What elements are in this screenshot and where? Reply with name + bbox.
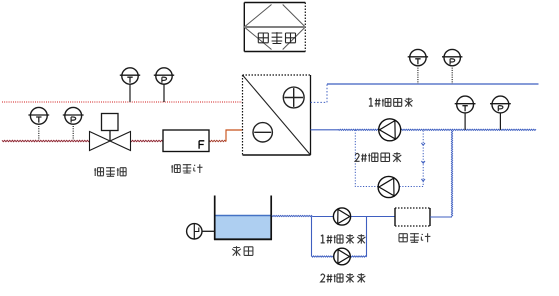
wire: make-up return zigzag riser to middle line <box>451 131 452 217</box>
temperature gauge T2 on return line <box>28 107 49 140</box>
temperature gauge T1 on supply line <box>120 68 140 102</box>
pressure gauge P4 on middle line <box>490 96 511 130</box>
control valve with actuator <box>90 114 131 151</box>
label: controller (kong zhi qi) <box>258 32 295 43</box>
make-up pump 1 (1# bu shui beng) <box>333 208 350 225</box>
make-up pump 2 (2# bu shui beng) <box>334 248 351 265</box>
label: flow meter (liu liang ji) <box>171 164 202 173</box>
wire: make-up water zigzag line from tank <box>272 215 313 216</box>
wire: return water dark red zigzag line (far left to valve) <box>2 140 90 141</box>
wire: zigzag flow meter exit segment <box>209 140 226 141</box>
cold side minus symbol <box>253 123 272 142</box>
wire: 2# make-up loop bottom zigzag segments <box>312 256 334 257</box>
heat exchanger unit U1 <box>243 75 311 155</box>
wire: 2# circulation pump dotted bypass loop <box>355 130 378 187</box>
wire: middle blue line from exchanger cold outlet <box>311 129 339 131</box>
controller box <box>244 3 305 52</box>
label: water tank (shui xiang) <box>232 246 253 256</box>
hot side plus symbol <box>283 87 304 108</box>
label: 1# make-up pump <box>321 234 366 243</box>
wire: make-up line through pump 1 <box>313 216 396 218</box>
wire: dark red zigzag valve to flow meter <box>130 140 163 141</box>
wire: orange line elbow to heat exchanger <box>226 130 243 142</box>
label: 1# circulation pump <box>369 98 413 107</box>
flow meter F box <box>163 130 209 152</box>
circulation pump 1 (1# xun huan beng) <box>379 119 401 141</box>
temperature gauge T4 on middle line <box>455 96 476 130</box>
pressure gauge P3 on top header <box>442 49 462 84</box>
label: 2# circulation pump <box>355 152 401 162</box>
flow arrows on 2# bypass riser <box>421 143 425 181</box>
wire: horizontal from energy meter to riser <box>430 216 452 218</box>
wire: supply water dotted red line (top left) <box>2 101 242 103</box>
pressure gauge P2 on return line <box>63 107 84 140</box>
temperature gauge T3 on top header <box>408 49 428 84</box>
wire: middle blue zigzag segment <box>338 129 536 130</box>
label: 2# make-up pump <box>321 273 366 282</box>
pressure gauge P1 on supply line <box>154 68 174 102</box>
wire: 2# make-up pump bypass loop left riser <box>311 217 313 257</box>
energy meter box <box>395 208 430 226</box>
wire: blue dotted from exchanger hot outlet <box>311 84 328 102</box>
label: control valve (tiao jie fa) <box>94 167 126 176</box>
label: energy meter (neng liang ji) <box>399 233 430 242</box>
water tank <box>214 196 272 240</box>
wire: top blue supply header <box>327 83 539 85</box>
circulation pump 2 (2# xun huan beng) <box>378 176 399 197</box>
level gauge on tank <box>187 224 215 239</box>
wire: 2# make-up loop right riser <box>366 217 368 257</box>
